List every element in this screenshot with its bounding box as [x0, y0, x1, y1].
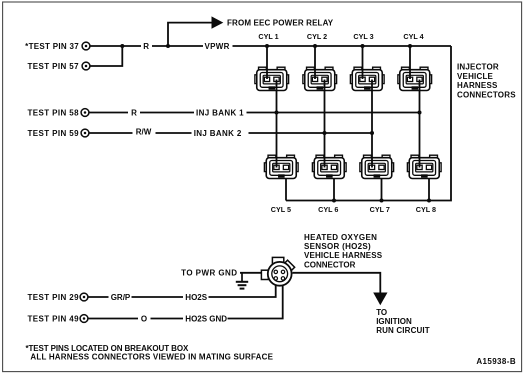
- junction: CYL8 return tap: [427, 199, 431, 203]
- svg-text:CYL 1: CYL 1: [258, 32, 278, 41]
- svg-text:FROM EEC POWER RELAY: FROM EEC POWER RELAY: [227, 19, 334, 28]
- wire: VPWR right-side drop to lower injector feed: [286, 46, 451, 201]
- svg-text:SENSOR (HO2S): SENSOR (HO2S): [304, 242, 371, 251]
- wire: INJ BANK 2 segment label to CYL3 branch: [249, 132, 373, 134]
- wire: INJ BANK 1 segment TP58 to R label: [90, 112, 129, 114]
- junction: CYL6 return tap: [332, 199, 336, 203]
- junction: CYL2 tap on VPWR: [313, 44, 317, 48]
- wire: CYL7 injector return drop: [381, 170, 383, 201]
- wire: CYL3-CYL7 shared bank riser: [371, 80, 373, 168]
- wire: VPWR drop into CYL3 pin: [362, 46, 364, 79]
- wire: VPWR bus segment VPWR label to right side: [233, 45, 452, 47]
- wire: CYL4-CYL8 shared bank riser: [419, 80, 421, 168]
- injector connector CYL3: [350, 67, 384, 90]
- svg-text:HARNESS: HARNESS: [457, 81, 498, 90]
- wire: CYL1-CYL5 shared bank riser: [276, 80, 278, 168]
- wire: HO2S connector to ignition run circuit: [293, 273, 381, 293]
- svg-text:CYL 7: CYL 7: [370, 205, 390, 214]
- test point TP59: [81, 129, 89, 137]
- wire: INJ BANK 2 segment R/W to label: [156, 132, 192, 134]
- wire: HO2S signal row GR/P to HO2S label: [132, 296, 184, 298]
- svg-text:CYL 3: CYL 3: [353, 32, 373, 41]
- svg-text:CONNECTORS: CONNECTORS: [457, 91, 516, 100]
- injector connector CYL8: [407, 155, 441, 178]
- test point TP57: [82, 62, 90, 70]
- svg-text:TEST PIN 49: TEST PIN 49: [27, 314, 79, 323]
- svg-text:O: O: [141, 314, 147, 323]
- wire: CYL5 injector return drop: [285, 170, 287, 201]
- pin 1 of HO2S connector: [274, 270, 277, 273]
- pin 2 of HO2S connector: [281, 270, 284, 273]
- svg-text:CONNECTOR: CONNECTOR: [304, 260, 356, 269]
- wire: EEC power relay feed riser: [168, 23, 212, 46]
- connector: HO2S round 4-pin harness connector: [261, 257, 294, 285]
- svg-text:INJ BANK 2: INJ BANK 2: [194, 129, 242, 138]
- junction: bank1 tap CYL1/CYL5: [275, 111, 279, 115]
- junction: CYL1 tap on VPWR: [265, 44, 269, 48]
- svg-text:TEST PIN 58: TEST PIN 58: [27, 109, 79, 118]
- arrow to FROM EEC POWER RELAY: [212, 16, 224, 28]
- ground: PWR GND chassis symbol: [236, 273, 248, 289]
- injector connector CYL1: [255, 67, 289, 90]
- svg-text:ALL HARNESS CONNECTORS VIEWED: ALL HARNESS CONNECTORS VIEWED IN MATING …: [30, 352, 273, 361]
- svg-text:CYL 4: CYL 4: [403, 32, 423, 41]
- wire: INJ BANK 1 segment label to CYL4 branch: [247, 112, 420, 114]
- wire: HO2S GND row O to label: [151, 318, 184, 320]
- junction: bank1 tap CYL4/CYL8: [418, 111, 422, 115]
- svg-text:GR/P: GR/P: [111, 293, 131, 302]
- arrow to ignition run circuit: [373, 293, 387, 306]
- wire: VPWR bus segment R label to VPWR label: [152, 45, 203, 47]
- injector connector CYL5: [264, 155, 298, 178]
- junction: bank2 tap CYL3/CYL7: [370, 131, 374, 135]
- svg-text:CYL 5: CYL 5: [271, 205, 291, 214]
- injector connector CYL2: [303, 67, 337, 90]
- svg-text:VEHICLE: VEHICLE: [457, 72, 494, 81]
- wire: INJ BANK 2 segment TP59 to R/W label: [90, 132, 133, 134]
- svg-text:TEST PIN 57: TEST PIN 57: [27, 62, 79, 71]
- junction: relay feed tap on VPWR: [166, 44, 170, 48]
- svg-text:R/W: R/W: [136, 128, 152, 137]
- pin 4 of HO2S connector: [281, 277, 284, 280]
- svg-text:VPWR: VPWR: [205, 42, 230, 51]
- wire: TP57 link to VPWR node: [91, 46, 123, 66]
- wire: VPWR bus segment TP37 to R label: [91, 45, 142, 47]
- wire: VPWR drop into CYL4 pin: [409, 46, 411, 79]
- svg-text:TO: TO: [376, 308, 387, 317]
- wire: HO2S signal row label to connector riser: [209, 279, 276, 297]
- test point TP29: [80, 293, 88, 301]
- test point TP37: [82, 42, 90, 50]
- svg-text:VEHICLE HARNESS: VEHICLE HARNESS: [304, 251, 383, 260]
- svg-text:A15938-B: A15938-B: [476, 357, 516, 366]
- junction: CYL7 return tap: [380, 199, 384, 203]
- junction: TP57 tap on VPWR: [120, 44, 124, 48]
- wire: HO2S GND row label to connector riser: [228, 279, 283, 319]
- wire: CYL6 injector return drop: [333, 170, 335, 201]
- pin 3 of HO2S connector: [274, 277, 277, 280]
- injector connector CYL6: [312, 155, 346, 178]
- svg-text:TEST PIN 29: TEST PIN 29: [27, 293, 79, 302]
- injector connector CYL7: [360, 155, 394, 178]
- wire: TO PWR GND lead into HO2S connector: [240, 272, 262, 274]
- test point TP49: [80, 315, 88, 323]
- svg-text:IGNITION: IGNITION: [376, 317, 412, 326]
- wire: INJ BANK 1 segment R to label: [140, 112, 194, 114]
- svg-text:HEATED OXYGEN: HEATED OXYGEN: [304, 233, 377, 242]
- svg-text:R: R: [131, 109, 137, 118]
- svg-text:CYL 2: CYL 2: [307, 32, 327, 41]
- svg-text:RUN CIRCUIT: RUN CIRCUIT: [376, 326, 430, 335]
- svg-text:CYL 6: CYL 6: [318, 205, 338, 214]
- test point TP58: [81, 109, 89, 117]
- svg-text:TO PWR GND: TO PWR GND: [181, 268, 237, 277]
- junction: bank2 tap CYL2/CYL6: [323, 131, 327, 135]
- svg-text:HO2S GND: HO2S GND: [185, 314, 227, 323]
- wire: VPWR drop into CYL2 pin: [314, 46, 316, 79]
- svg-text:INJ BANK 1: INJ BANK 1: [196, 109, 244, 118]
- wire: CYL8 injector return drop: [428, 170, 430, 201]
- wire: HO2S signal row TP29 to GR/P label: [89, 296, 109, 298]
- wire: VPWR drop into CYL1 pin: [266, 46, 268, 79]
- svg-text:TEST PIN 59: TEST PIN 59: [27, 129, 79, 138]
- wire: CYL2-CYL6 shared bank riser: [324, 80, 326, 168]
- svg-text:*TEST PIN 37: *TEST PIN 37: [25, 42, 79, 51]
- junction: CYL3 tap on VPWR: [361, 44, 365, 48]
- wire: HO2S GND row TP49 to O label: [89, 318, 139, 320]
- junction: CYL4 tap on VPWR: [408, 44, 412, 48]
- svg-text:INJECTOR: INJECTOR: [457, 63, 499, 72]
- svg-text:R: R: [143, 42, 149, 51]
- svg-text:HO2S: HO2S: [185, 293, 207, 302]
- injector connector CYL4: [398, 67, 432, 90]
- svg-text:CYL 8: CYL 8: [416, 205, 436, 214]
